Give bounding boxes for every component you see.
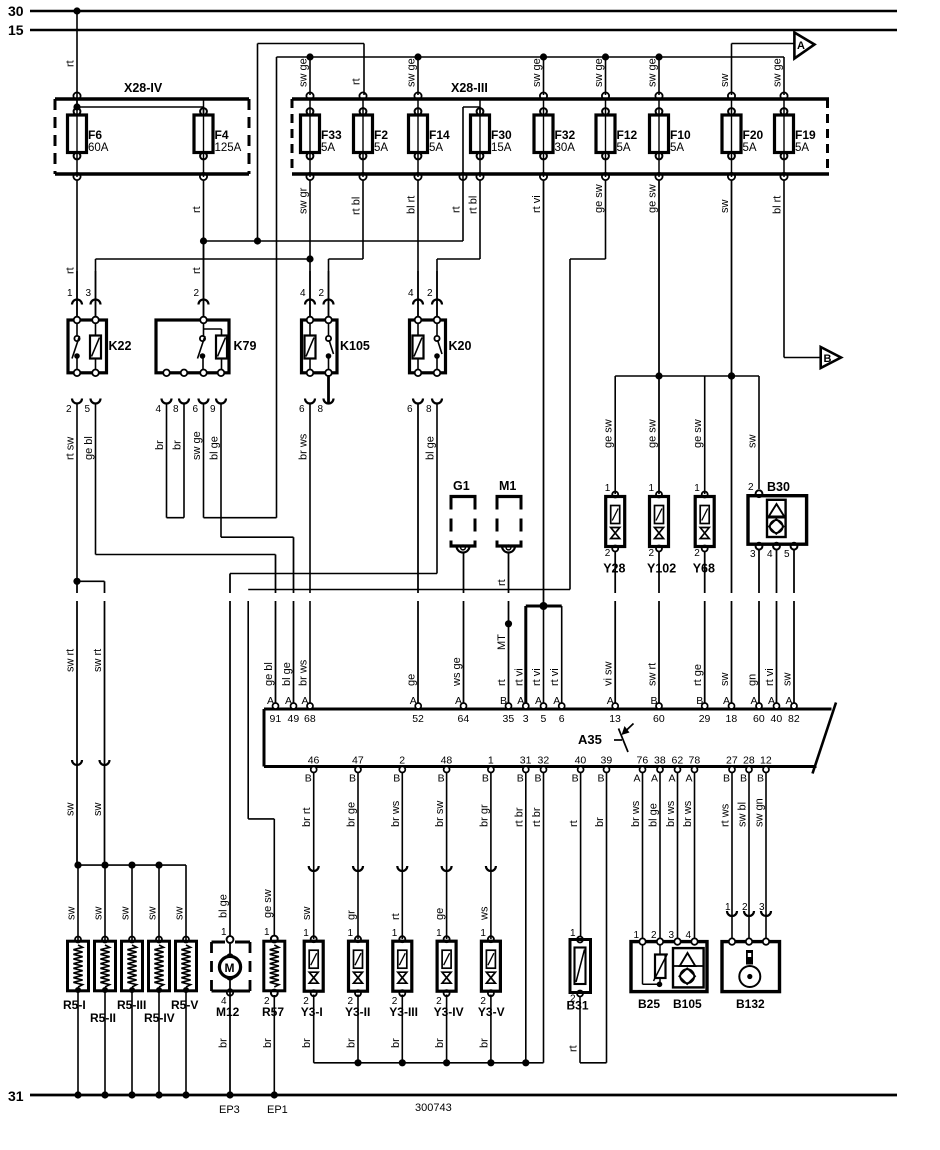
svg-text:2: 2 bbox=[427, 288, 433, 299]
svg-text:F4: F4 bbox=[215, 128, 229, 142]
svg-text:78: 78 bbox=[689, 755, 701, 767]
svg-text:sw: sw bbox=[93, 907, 105, 921]
svg-text:rt: rt bbox=[568, 820, 580, 827]
svg-text:rt: rt bbox=[390, 913, 402, 920]
svg-text:6: 6 bbox=[193, 404, 199, 415]
svg-text:ge bl: ge bl bbox=[83, 436, 95, 460]
svg-text:M1: M1 bbox=[499, 479, 516, 493]
svg-text:6: 6 bbox=[299, 404, 305, 415]
svg-text:48: 48 bbox=[441, 755, 453, 767]
svg-text:5A: 5A bbox=[670, 142, 684, 154]
svg-text:br: br bbox=[346, 1038, 358, 1048]
svg-text:sw: sw bbox=[719, 74, 731, 88]
svg-text:bl ge: bl ge bbox=[218, 894, 230, 918]
svg-text:3: 3 bbox=[750, 549, 756, 560]
svg-text:sw: sw bbox=[120, 907, 132, 921]
svg-text:bl rt: bl rt bbox=[772, 196, 784, 214]
svg-text:Y3-I: Y3-I bbox=[301, 1005, 323, 1019]
svg-text:4: 4 bbox=[156, 404, 162, 415]
svg-text:A: A bbox=[686, 773, 693, 785]
svg-text:ge: ge bbox=[406, 674, 418, 686]
svg-text:4: 4 bbox=[300, 288, 306, 299]
svg-text:1: 1 bbox=[605, 483, 611, 494]
svg-text:sw rt: sw rt bbox=[65, 649, 77, 672]
svg-text:40: 40 bbox=[771, 713, 783, 725]
svg-text:B: B bbox=[482, 773, 489, 785]
svg-text:ge bl: ge bl bbox=[263, 662, 275, 686]
svg-text:8: 8 bbox=[318, 404, 324, 415]
svg-text:K22: K22 bbox=[109, 339, 132, 353]
svg-text:sw ge: sw ge bbox=[406, 58, 418, 87]
svg-text:R5-II: R5-II bbox=[90, 1011, 116, 1025]
svg-text:B31: B31 bbox=[567, 999, 589, 1013]
svg-text:X28-III: X28-III bbox=[451, 81, 488, 95]
svg-text:B: B bbox=[305, 773, 312, 785]
svg-text:31: 31 bbox=[8, 1088, 24, 1104]
svg-text:br ws: br ws bbox=[298, 659, 310, 686]
svg-text:B: B bbox=[651, 695, 658, 707]
svg-text:1: 1 bbox=[392, 928, 398, 939]
svg-text:A: A bbox=[285, 695, 292, 707]
svg-text:2: 2 bbox=[66, 404, 72, 415]
svg-text:rt: rt bbox=[351, 78, 363, 85]
svg-text:sw bl: sw bl bbox=[737, 802, 749, 827]
svg-text:br rt: br rt bbox=[301, 807, 313, 827]
svg-text:sw: sw bbox=[66, 907, 78, 921]
svg-text:rt vi: rt vi bbox=[549, 668, 561, 686]
svg-text:F30: F30 bbox=[491, 128, 512, 142]
svg-text:F10: F10 bbox=[670, 128, 691, 142]
svg-text:A35: A35 bbox=[578, 732, 602, 747]
svg-text:3: 3 bbox=[759, 902, 765, 913]
svg-text:12: 12 bbox=[760, 755, 772, 767]
svg-text:br: br bbox=[301, 1038, 313, 1048]
svg-text:sw: sw bbox=[747, 435, 759, 449]
svg-text:60: 60 bbox=[753, 713, 765, 725]
svg-text:A: A bbox=[517, 695, 524, 707]
svg-text:ge sw: ge sw bbox=[647, 184, 659, 213]
svg-text:R5-V: R5-V bbox=[171, 998, 198, 1012]
svg-text:br: br bbox=[390, 1038, 402, 1048]
svg-text:ws: ws bbox=[478, 906, 490, 921]
svg-text:br: br bbox=[218, 1038, 230, 1048]
svg-text:rt br: rt br bbox=[531, 807, 543, 827]
svg-text:1: 1 bbox=[488, 755, 494, 767]
svg-text:B: B bbox=[740, 773, 747, 785]
svg-text:rt ge: rt ge bbox=[692, 664, 704, 686]
svg-text:rt vi: rt vi bbox=[531, 668, 543, 686]
svg-text:A: A bbox=[302, 695, 309, 707]
svg-text:EP1: EP1 bbox=[267, 1104, 288, 1116]
svg-text:A: A bbox=[410, 695, 417, 707]
svg-text:F14: F14 bbox=[429, 128, 450, 142]
svg-text:A: A bbox=[553, 695, 560, 707]
svg-text:1: 1 bbox=[303, 928, 309, 939]
svg-text:bl ge: bl ge bbox=[209, 436, 221, 460]
svg-text:ge sw: ge sw bbox=[262, 889, 274, 918]
svg-text:1: 1 bbox=[67, 288, 73, 299]
svg-text:br ws: br ws bbox=[665, 800, 677, 827]
svg-text:sw ge: sw ge bbox=[298, 58, 310, 87]
svg-text:rt vi: rt vi bbox=[764, 668, 776, 686]
svg-text:sw ge: sw ge bbox=[772, 58, 784, 87]
svg-text:br: br bbox=[172, 440, 184, 450]
svg-text:1: 1 bbox=[570, 928, 576, 939]
svg-text:B: B bbox=[438, 773, 445, 785]
svg-text:sw gr: sw gr bbox=[298, 187, 310, 214]
svg-text:2: 2 bbox=[651, 930, 657, 941]
svg-text:sw: sw bbox=[782, 673, 794, 687]
svg-text:br ws: br ws bbox=[630, 800, 642, 827]
svg-text:B: B bbox=[500, 695, 507, 707]
svg-text:A: A bbox=[768, 695, 775, 707]
svg-text:vi sw: vi sw bbox=[603, 662, 615, 687]
svg-text:A: A bbox=[786, 695, 793, 707]
svg-text:rt sw: rt sw bbox=[65, 437, 77, 460]
svg-text:28: 28 bbox=[743, 755, 755, 767]
svg-text:F19: F19 bbox=[795, 128, 816, 142]
svg-text:68: 68 bbox=[304, 713, 316, 725]
svg-text:rt vi: rt vi bbox=[513, 668, 525, 686]
svg-text:3: 3 bbox=[669, 930, 675, 941]
svg-text:F33: F33 bbox=[321, 128, 342, 142]
svg-text:M: M bbox=[225, 961, 235, 975]
svg-text:A: A bbox=[634, 773, 641, 785]
svg-text:ge sw: ge sw bbox=[603, 419, 615, 448]
svg-text:3: 3 bbox=[86, 288, 92, 299]
svg-text:3: 3 bbox=[523, 713, 529, 725]
svg-text:15A: 15A bbox=[491, 142, 512, 154]
svg-text:MT: MT bbox=[496, 634, 508, 650]
svg-text:62: 62 bbox=[672, 755, 684, 767]
svg-text:2: 2 bbox=[319, 288, 325, 299]
svg-text:br ws: br ws bbox=[390, 800, 402, 827]
svg-text:4: 4 bbox=[408, 288, 414, 299]
svg-text:X28-IV: X28-IV bbox=[124, 81, 163, 95]
svg-text:rt br: rt br bbox=[513, 807, 525, 827]
svg-text:ws ge: ws ge bbox=[451, 657, 463, 687]
svg-text:Y102: Y102 bbox=[647, 562, 676, 576]
svg-text:ge sw: ge sw bbox=[692, 419, 704, 448]
svg-text:B: B bbox=[696, 695, 703, 707]
svg-text:B: B bbox=[349, 773, 356, 785]
svg-text:A: A bbox=[455, 695, 462, 707]
svg-text:2: 2 bbox=[194, 288, 200, 299]
svg-text:5A: 5A bbox=[743, 142, 757, 154]
svg-text:A: A bbox=[669, 773, 676, 785]
svg-text:gr: gr bbox=[346, 910, 358, 920]
svg-text:br ws: br ws bbox=[682, 800, 694, 827]
svg-text:Y3-III: Y3-III bbox=[389, 1005, 418, 1019]
svg-text:1: 1 bbox=[264, 927, 270, 938]
svg-text:sw: sw bbox=[65, 803, 77, 817]
svg-text:B105: B105 bbox=[673, 997, 702, 1011]
svg-text:B30: B30 bbox=[767, 480, 790, 494]
svg-text:sw rt: sw rt bbox=[92, 649, 104, 672]
svg-text:125A: 125A bbox=[215, 142, 242, 154]
svg-text:br: br bbox=[478, 1038, 490, 1048]
svg-text:46: 46 bbox=[308, 755, 320, 767]
svg-text:82: 82 bbox=[788, 713, 800, 725]
svg-text:B: B bbox=[757, 773, 764, 785]
svg-text:br gr: br gr bbox=[478, 804, 490, 827]
svg-text:rt: rt bbox=[451, 206, 463, 213]
svg-text:2: 2 bbox=[748, 482, 754, 493]
svg-text:1: 1 bbox=[221, 927, 227, 938]
svg-text:sw: sw bbox=[719, 673, 731, 687]
svg-text:sw: sw bbox=[147, 907, 159, 921]
svg-text:B: B bbox=[598, 773, 605, 785]
svg-text:2: 2 bbox=[649, 548, 655, 559]
svg-text:G1: G1 bbox=[453, 479, 470, 493]
svg-text:gn: gn bbox=[747, 674, 759, 686]
svg-text:13: 13 bbox=[609, 713, 621, 725]
svg-text:br: br bbox=[262, 1038, 274, 1048]
svg-text:5A: 5A bbox=[374, 142, 388, 154]
svg-text:br: br bbox=[154, 440, 166, 450]
svg-text:5A: 5A bbox=[795, 142, 809, 154]
svg-text:2: 2 bbox=[605, 548, 611, 559]
svg-text:bl ge: bl ge bbox=[425, 436, 437, 460]
svg-text:5A: 5A bbox=[321, 142, 335, 154]
svg-text:39: 39 bbox=[601, 755, 613, 767]
svg-text:br ge: br ge bbox=[346, 802, 358, 827]
svg-text:rt: rt bbox=[65, 267, 77, 274]
svg-text:B25: B25 bbox=[638, 997, 660, 1011]
svg-text:sw ge: sw ge bbox=[531, 58, 543, 87]
svg-text:K20: K20 bbox=[449, 339, 472, 353]
svg-text:br: br bbox=[434, 1038, 446, 1048]
svg-text:F20: F20 bbox=[743, 128, 764, 142]
svg-text:64: 64 bbox=[458, 713, 470, 725]
svg-text:bl rt: bl rt bbox=[406, 196, 418, 214]
svg-text:5: 5 bbox=[784, 549, 790, 560]
svg-text:sw: sw bbox=[174, 907, 186, 921]
svg-text:91: 91 bbox=[270, 713, 282, 725]
svg-text:Y3-IV: Y3-IV bbox=[434, 1005, 464, 1019]
svg-text:5: 5 bbox=[541, 713, 547, 725]
svg-text:sw ge: sw ge bbox=[647, 58, 659, 87]
svg-text:bl ge: bl ge bbox=[281, 662, 293, 686]
svg-text:18: 18 bbox=[726, 713, 738, 725]
svg-text:1: 1 bbox=[694, 483, 700, 494]
svg-text:K79: K79 bbox=[234, 339, 257, 353]
svg-text:sw ge: sw ge bbox=[593, 58, 605, 87]
svg-text:30A: 30A bbox=[555, 142, 576, 154]
svg-text:6: 6 bbox=[407, 404, 413, 415]
svg-text:2: 2 bbox=[694, 548, 700, 559]
svg-text:sw ge: sw ge bbox=[191, 431, 203, 460]
svg-text:5A: 5A bbox=[617, 142, 631, 154]
svg-text:1: 1 bbox=[436, 928, 442, 939]
svg-text:5A: 5A bbox=[429, 142, 443, 154]
svg-text:A: A bbox=[267, 695, 274, 707]
svg-text:ge sw: ge sw bbox=[593, 184, 605, 213]
svg-text:rt ws: rt ws bbox=[720, 803, 732, 827]
svg-text:A: A bbox=[797, 40, 805, 52]
svg-text:sw: sw bbox=[301, 907, 313, 921]
svg-text:rt vi: rt vi bbox=[531, 195, 543, 213]
svg-text:35: 35 bbox=[503, 713, 515, 725]
svg-text:8: 8 bbox=[426, 404, 432, 415]
svg-text:47: 47 bbox=[352, 755, 364, 767]
svg-text:1: 1 bbox=[725, 902, 731, 913]
svg-text:rt: rt bbox=[191, 267, 203, 274]
svg-text:B: B bbox=[824, 353, 832, 365]
svg-text:B: B bbox=[535, 773, 542, 785]
svg-text:rt bl: rt bl bbox=[351, 197, 363, 215]
svg-text:27: 27 bbox=[726, 755, 738, 767]
svg-text:5: 5 bbox=[85, 404, 91, 415]
svg-text:31: 31 bbox=[520, 755, 532, 767]
svg-text:1: 1 bbox=[649, 483, 655, 494]
svg-text:8: 8 bbox=[173, 404, 179, 415]
svg-text:A: A bbox=[723, 695, 730, 707]
svg-text:EP3: EP3 bbox=[219, 1104, 240, 1116]
svg-text:B: B bbox=[723, 773, 730, 785]
svg-text:B132: B132 bbox=[736, 997, 765, 1011]
svg-text:38: 38 bbox=[654, 755, 666, 767]
svg-text:rt: rt bbox=[568, 1045, 580, 1052]
svg-text:1: 1 bbox=[480, 928, 486, 939]
svg-text:32: 32 bbox=[538, 755, 550, 767]
svg-text:29: 29 bbox=[699, 713, 711, 725]
svg-text:A: A bbox=[651, 773, 658, 785]
svg-text:F6: F6 bbox=[88, 128, 102, 142]
svg-text:300743: 300743 bbox=[415, 1102, 452, 1114]
svg-text:B: B bbox=[572, 773, 579, 785]
svg-text:rt: rt bbox=[65, 60, 77, 67]
svg-text:1: 1 bbox=[348, 928, 354, 939]
svg-text:9: 9 bbox=[210, 404, 216, 415]
svg-text:4: 4 bbox=[767, 549, 773, 560]
svg-text:30: 30 bbox=[8, 3, 24, 19]
svg-text:1: 1 bbox=[634, 930, 640, 941]
svg-text:A: A bbox=[535, 695, 542, 707]
svg-text:B: B bbox=[517, 773, 524, 785]
svg-text:sw: sw bbox=[92, 803, 104, 817]
svg-text:15: 15 bbox=[8, 22, 24, 38]
svg-text:ge: ge bbox=[434, 908, 446, 920]
svg-text:K105: K105 bbox=[340, 339, 370, 353]
svg-text:R57: R57 bbox=[262, 1005, 284, 1019]
svg-text:bl ge: bl ge bbox=[648, 803, 660, 827]
svg-text:2: 2 bbox=[742, 902, 748, 913]
svg-text:2: 2 bbox=[399, 755, 405, 767]
svg-text:rt: rt bbox=[191, 206, 203, 213]
svg-text:R5-I: R5-I bbox=[63, 998, 86, 1012]
svg-text:br sw: br sw bbox=[434, 801, 446, 827]
svg-text:ge sw: ge sw bbox=[647, 419, 659, 448]
svg-text:M12: M12 bbox=[216, 1005, 240, 1019]
svg-text:A: A bbox=[751, 695, 758, 707]
svg-text:40: 40 bbox=[575, 755, 587, 767]
svg-text:sw: sw bbox=[719, 200, 731, 214]
svg-text:rt: rt bbox=[496, 579, 508, 586]
svg-text:rt: rt bbox=[496, 679, 508, 686]
svg-text:br: br bbox=[594, 817, 606, 827]
svg-text:F2: F2 bbox=[374, 128, 388, 142]
svg-text:F12: F12 bbox=[617, 128, 638, 142]
svg-text:60A: 60A bbox=[88, 142, 109, 154]
svg-text:sw rt: sw rt bbox=[647, 663, 659, 686]
svg-text:49: 49 bbox=[288, 713, 300, 725]
svg-text:76: 76 bbox=[637, 755, 649, 767]
svg-text:B: B bbox=[393, 773, 400, 785]
svg-text:F32: F32 bbox=[555, 128, 576, 142]
svg-text:A: A bbox=[607, 695, 614, 707]
svg-text:52: 52 bbox=[412, 713, 424, 725]
svg-text:rt bl: rt bl bbox=[468, 196, 480, 214]
svg-text:6: 6 bbox=[559, 713, 565, 725]
svg-text:4: 4 bbox=[686, 930, 692, 941]
svg-text:60: 60 bbox=[653, 713, 665, 725]
svg-text:sw gn: sw gn bbox=[754, 798, 766, 827]
svg-text:br ws: br ws bbox=[298, 433, 310, 460]
